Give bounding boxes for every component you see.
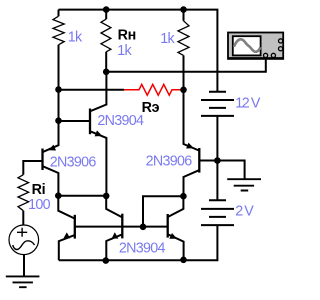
svg-text:Ri: Ri [32, 182, 46, 198]
svg-text:1k: 1k [117, 43, 132, 59]
AC source circle [9, 225, 39, 255]
wire 2V battery top lead [216, 161, 218, 201]
transistor Q6 collector [168, 196, 183, 217]
wire mirror node left [58, 195, 106, 197]
transistor Q5 2N3904 collector [106, 196, 122, 217]
transistor Q5 2N3904 base bar [121, 214, 123, 239]
AC source sine glyph [13, 241, 35, 250]
wire Q1 base [59, 120, 90, 122]
resistor R3 1k (right) [183, 10, 185, 21]
node dot Q1 base [55, 117, 62, 124]
svg-text:2N3904: 2N3904 [119, 241, 166, 257]
transistor Q2 2N3906 left base bar [41, 149, 43, 171]
transistor Q4 base bar [74, 215, 76, 239]
arrow Q6 emitter [169, 233, 177, 239]
wire Ri to AC source [22, 211, 24, 226]
node dot rail middle [103, 257, 110, 264]
AC source plus sign [17, 228, 27, 237]
svg-text:2N3904: 2N3904 [97, 113, 144, 129]
battery 12V plates [201, 92, 234, 116]
svg-text:2 V: 2 V [235, 204, 254, 220]
ground right [227, 179, 261, 190]
wire 12V battery bottom lead [216, 116, 218, 161]
node dot Rn bottom [103, 69, 110, 76]
node dot top R3 [180, 6, 187, 13]
wire Q3 base to battery node [199, 160, 217, 162]
wire base interconnect [75, 226, 168, 228]
wire node to Re resistor [59, 89, 125, 91]
transistor Q1 2N3904 base bar [89, 109, 91, 135]
arrow Q5 emitter [112, 232, 119, 238]
node dot R1/Re [55, 86, 62, 93]
node dot mirror left [55, 192, 62, 199]
arrow Q2 emitter [48, 145, 56, 151]
wire scope to Rn bottom node [106, 57, 266, 72]
svg-text:1k: 1k [160, 31, 175, 47]
wire bottom rail and 2V bottom lead [59, 225, 218, 260]
resistor Rn 1k (middle) [105, 10, 107, 20]
wire AC source to ground [23, 255, 25, 277]
wire R1 bottom lead [58, 45, 60, 121]
transistor Q3 2N3906 right base bar [198, 148, 200, 173]
wire Q2 base to Ri [23, 161, 42, 175]
transistor Q2 2N3906 left collector [43, 166, 59, 195]
node dot rail right [180, 257, 187, 264]
transistor Q4 emitter [59, 235, 75, 260]
resistor R1 1k (left) [58, 10, 60, 17]
transistor Q1 2N3904 collector [91, 72, 107, 111]
transistor Q3 2N3906 right collector [184, 170, 200, 196]
arrow Q4 emitter [64, 232, 71, 238]
svg-text:100: 100 [28, 197, 51, 213]
node dot Re/R3 [180, 87, 187, 94]
node dot top Rn [103, 6, 110, 13]
node dot battery junction [214, 157, 221, 164]
svg-text:Rэ: Rэ [142, 100, 160, 116]
svg-text:2N3906: 2N3906 [50, 155, 97, 171]
transistor Q3 2N3906 right emitter [184, 90, 200, 151]
arrow Q3 emitter [186, 143, 194, 149]
svg-text:12 V: 12 V [235, 95, 261, 111]
oscilloscope body [228, 33, 283, 59]
arrow Q1 emitter [95, 130, 103, 136]
svg-text:1k: 1k [68, 29, 83, 45]
node dot mirror middle [103, 193, 110, 200]
battery 2V plates [201, 200, 234, 225]
transistor Q4 collector [58, 196, 74, 219]
transistor Q6 base bar [167, 214, 169, 238]
wire battery node to right ground [217, 161, 244, 180]
svg-text:2N3906: 2N3906 [146, 153, 193, 169]
oscilloscope bottom edge [229, 57, 283, 59]
transistor Q1 2N3904 emitter [91, 132, 107, 196]
oscilloscope terminals [264, 39, 283, 58]
wire top rail to 12V battery [59, 10, 218, 92]
transistor Q2 2N3906 left emitter [43, 121, 59, 152]
transistor Q5 2N3904 emitter [106, 235, 122, 261]
node dot mirror right [180, 193, 187, 200]
transistor Q6 emitter [168, 234, 184, 259]
oscilloscope trace [234, 39, 261, 51]
node dot base interconnect [140, 224, 147, 231]
resistor Ri 100 [18, 175, 29, 211]
ground left [6, 276, 40, 287]
oscilloscope screen [233, 36, 261, 55]
resistor Re (red) [124, 84, 181, 95]
wire base feed to right collector node [143, 196, 183, 227]
svg-text:Rн: Rн [118, 27, 136, 43]
